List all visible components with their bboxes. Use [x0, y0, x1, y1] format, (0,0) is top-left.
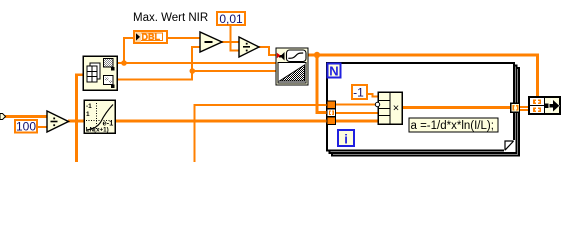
svg-text:DBL: DBL — [142, 32, 161, 42]
svg-text:N: N — [329, 64, 338, 79]
svg-text:LN(x+1): LN(x+1) — [86, 127, 109, 134]
svg-text:Max. Wert NIR: Max. Wert NIR — [133, 12, 208, 24]
svg-text:-1: -1 — [353, 86, 364, 100]
svg-text:×: × — [393, 103, 399, 115]
svg-text:1: 1 — [86, 111, 90, 118]
svg-text:0,01: 0,01 — [219, 12, 243, 26]
svg-text:100: 100 — [16, 120, 36, 134]
svg-text:-1: -1 — [86, 103, 92, 110]
svg-text:a =-1/d*x*ln(I/L);: a =-1/d*x*ln(I/L); — [411, 120, 494, 132]
svg-text:i: i — [344, 132, 348, 147]
